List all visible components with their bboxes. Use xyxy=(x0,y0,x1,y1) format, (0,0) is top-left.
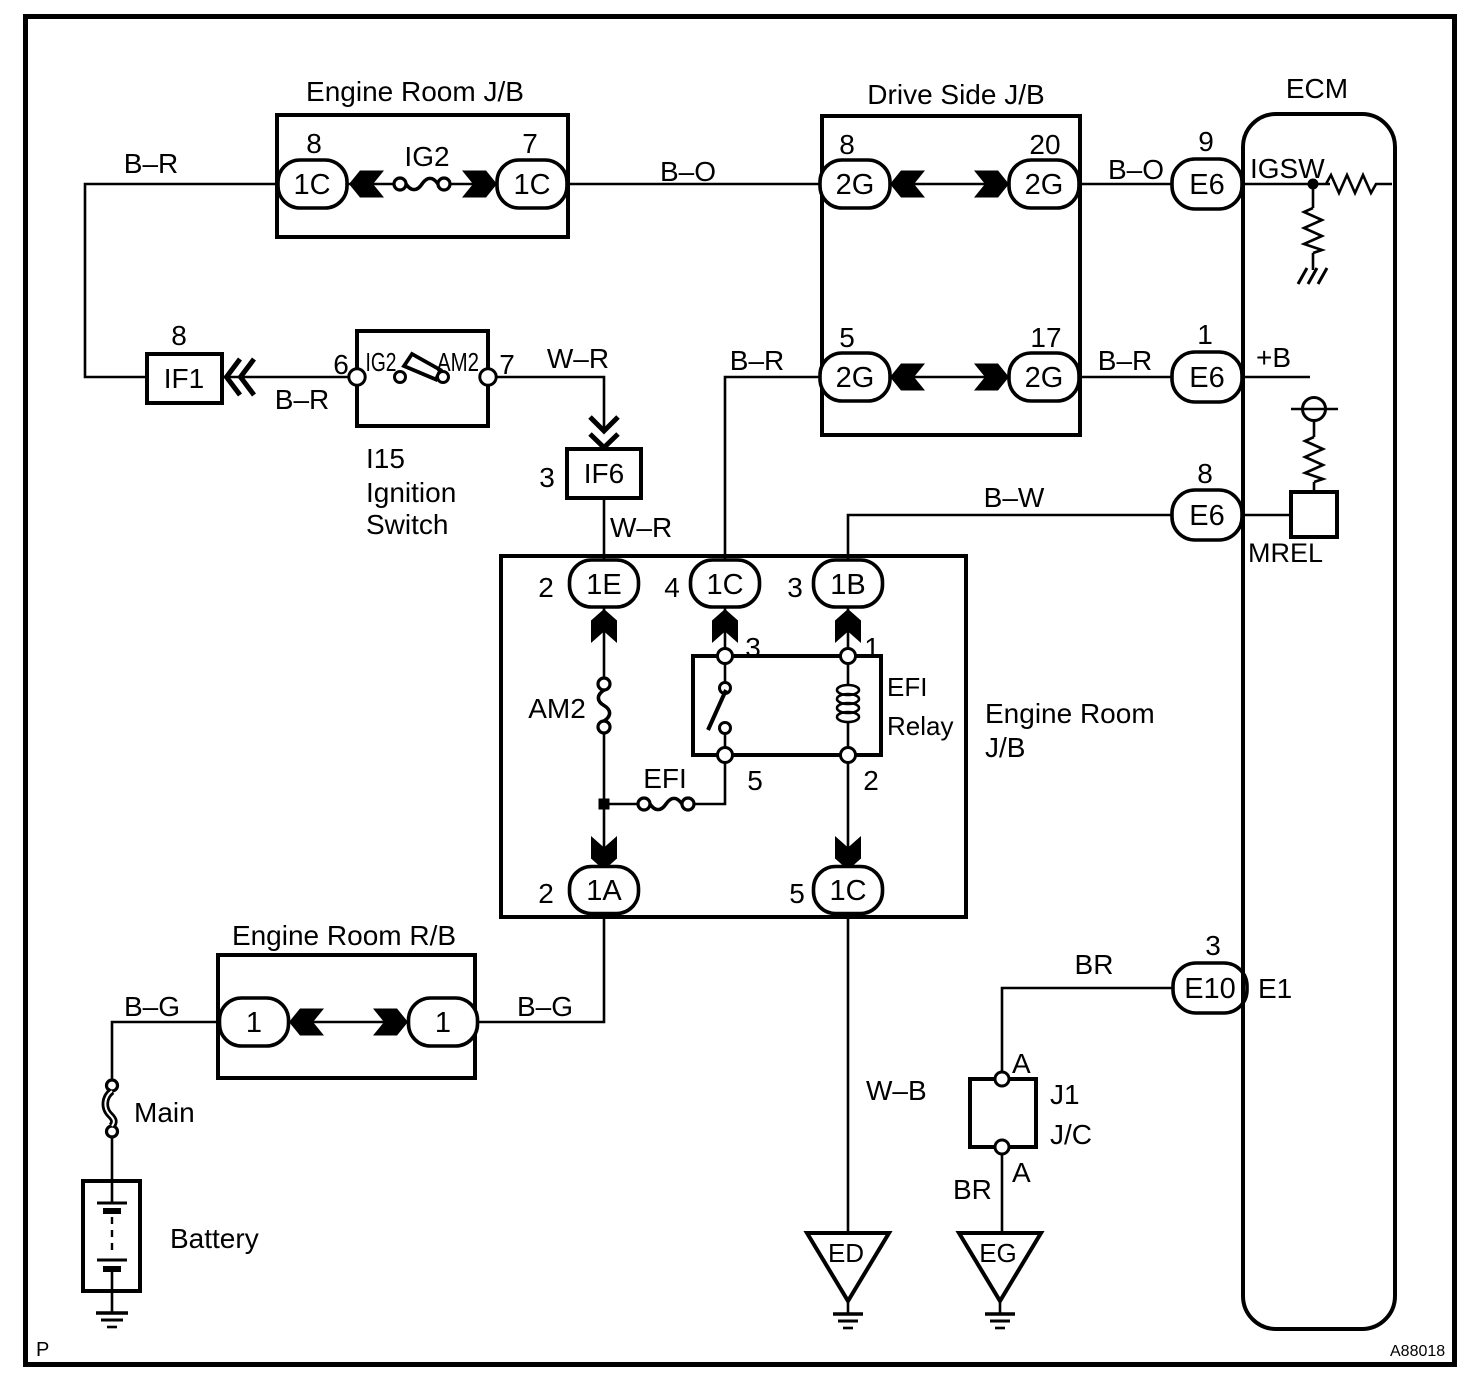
I15 box xyxy=(357,331,488,426)
wire between connectors xyxy=(289,1021,408,1024)
Engine Room J/B box xyxy=(277,115,568,237)
relay contact lower xyxy=(720,723,731,734)
pin A top xyxy=(995,1072,1009,1086)
wire B-R 2G pin17 to E6 pin1 xyxy=(1080,376,1172,379)
wire B-O 1C pin7 to 2G pin8 xyxy=(567,183,820,186)
connector arrow down (1A) xyxy=(591,836,617,870)
svg-text:20: 20 xyxy=(1029,129,1060,160)
svg-text:1C: 1C xyxy=(513,169,550,201)
svg-text:3: 3 xyxy=(787,572,803,603)
battery plate long top xyxy=(97,1202,127,1205)
svg-text:IG2: IG2 xyxy=(366,347,397,377)
ground (EG) xyxy=(999,1301,1002,1313)
connector 1A pin 2 xyxy=(570,867,639,914)
svg-text:E6: E6 xyxy=(1189,500,1224,532)
svg-text:AM2: AM2 xyxy=(528,693,586,724)
svg-text:B–R: B–R xyxy=(1098,345,1152,376)
svg-text:Main: Main xyxy=(134,1097,195,1128)
resistor vertical IGSW xyxy=(1304,208,1322,253)
svg-text:EFI: EFI xyxy=(887,672,927,702)
battery xyxy=(83,1181,259,1291)
svg-text:A88018: A88018 xyxy=(1390,1343,1445,1360)
wire B-R IF1 to ignition switch pin 6 xyxy=(222,376,357,379)
connector arrow up (1C) xyxy=(712,609,738,643)
svg-text:B–R: B–R xyxy=(730,345,784,376)
ground triangle ED xyxy=(807,1233,889,1301)
wire relay pin2 to 1C bottom xyxy=(847,762,850,867)
Engine Room R/B box xyxy=(218,955,475,1078)
svg-text:A: A xyxy=(1012,1157,1031,1188)
node IGSW xyxy=(1308,179,1319,190)
svg-text:B–R: B–R xyxy=(124,148,178,179)
svg-text:1: 1 xyxy=(864,632,880,663)
svg-text:1C: 1C xyxy=(293,169,330,201)
wire BR J1 to EG xyxy=(1001,1154,1004,1233)
fusible link Main xyxy=(107,1080,118,1091)
fuse AM2 xyxy=(598,678,610,690)
junction block: Drive Side J/B xyxy=(820,79,1080,435)
wire W-R pin7 to IF6 xyxy=(495,377,604,431)
wire 1E to AM2 fuse xyxy=(603,607,606,678)
connector arrow up (1E) xyxy=(591,609,617,643)
svg-text:8: 8 xyxy=(1197,458,1213,489)
connector arrow left row1 xyxy=(890,171,925,198)
wire relay pin5 to EFI fuse xyxy=(694,762,725,804)
wire 1C to relay pin 3 xyxy=(724,607,727,650)
battery plate long bottom xyxy=(97,1259,127,1262)
wire resistor to MREL box xyxy=(1313,482,1316,492)
resistor horizontal IGSW xyxy=(1326,175,1392,193)
svg-text:ECM: ECM xyxy=(1286,73,1348,104)
Drive Side J/B box xyxy=(822,116,1080,435)
wire W-R IF6 to 1E xyxy=(603,498,606,561)
svg-text:8: 8 xyxy=(306,128,322,159)
relay box EFI xyxy=(693,656,881,755)
wire between 2G row2 xyxy=(890,376,1009,379)
svg-text:W–R: W–R xyxy=(547,343,609,374)
junction block: Engine Room J/B (center) xyxy=(501,556,1155,917)
svg-text:E10: E10 xyxy=(1184,973,1236,1005)
fusible link IF6 xyxy=(567,449,641,498)
switch arm xyxy=(404,354,441,380)
svg-text:IG2: IG2 xyxy=(404,141,449,172)
wire B-G R/B to Main link xyxy=(112,1022,219,1080)
svg-text:4: 4 xyxy=(664,572,680,603)
pin 7 xyxy=(480,369,496,385)
wire B-W 1B to ECM E6 pin 8 xyxy=(848,515,1172,560)
relay pin 3 xyxy=(718,649,733,664)
ground (ECM internal) xyxy=(1298,268,1327,284)
svg-text:ED: ED xyxy=(828,1238,864,1268)
contact AM2 xyxy=(438,372,449,383)
connector chevrons at IF1 xyxy=(227,359,255,395)
wire EFI fuse to junction xyxy=(604,803,638,806)
pin A bottom xyxy=(995,1140,1009,1154)
relay pin 2 xyxy=(841,748,856,763)
connector 1E pin 2 xyxy=(570,560,639,607)
svg-text:Relay: Relay xyxy=(887,711,953,741)
fusible link IF1 xyxy=(147,354,222,403)
wire BR E10 to J1 xyxy=(1002,988,1174,1072)
svg-text:2: 2 xyxy=(538,878,554,909)
connector 1B pin 3 xyxy=(814,560,883,607)
junction connector J1 J/C xyxy=(970,1048,1092,1188)
connector 2G pin 5 xyxy=(820,353,890,401)
ground (ED) xyxy=(847,1301,850,1313)
MREL driver box xyxy=(1291,492,1337,537)
svg-text:Ignition: Ignition xyxy=(366,477,456,508)
svg-text:B–G: B–G xyxy=(517,991,573,1022)
battery plate short thick bottom xyxy=(103,1266,121,1272)
junction node xyxy=(599,799,610,810)
battery plate short thick xyxy=(103,1208,121,1214)
svg-text:2G: 2G xyxy=(1025,362,1064,394)
svg-text:1B: 1B xyxy=(830,569,865,601)
connector arrow right xyxy=(373,1009,408,1036)
svg-text:A: A xyxy=(1012,1048,1031,1079)
svg-text:P: P xyxy=(36,1339,49,1361)
svg-text:1C: 1C xyxy=(829,875,866,907)
wire B-G 1A to Engine Room R/B xyxy=(477,914,604,1022)
svg-text:1: 1 xyxy=(246,1007,262,1039)
ECM module xyxy=(1242,73,1395,1329)
ignition switch I15 xyxy=(333,331,515,540)
connector arrow right xyxy=(462,171,497,198)
svg-text:1A: 1A xyxy=(586,875,622,907)
wire B-R to 2G pin5 and down to 1C pin4 xyxy=(725,377,820,561)
fuse IG2 xyxy=(394,178,406,190)
svg-text:Switch: Switch xyxy=(366,509,448,540)
svg-text:17: 17 xyxy=(1030,322,1061,353)
svg-text:B–W: B–W xyxy=(984,482,1045,513)
svg-text:W–R: W–R xyxy=(610,512,672,543)
svg-text:8: 8 xyxy=(839,129,855,160)
svg-text:1: 1 xyxy=(435,1007,451,1039)
svg-text:E6: E6 xyxy=(1189,362,1224,394)
svg-text:7: 7 xyxy=(522,128,538,159)
relay pin 5 xyxy=(718,748,733,763)
svg-text:EFI: EFI xyxy=(643,763,687,794)
svg-text:2G: 2G xyxy=(1025,169,1064,201)
svg-text:MREL: MREL xyxy=(1248,538,1323,568)
connector 1C pin 5 xyxy=(814,867,883,914)
svg-text:B–O: B–O xyxy=(660,156,716,187)
svg-text:Engine Room R/B: Engine Room R/B xyxy=(232,920,456,951)
svg-text:3: 3 xyxy=(745,632,761,663)
connector 2G pin 20 xyxy=(1009,160,1079,208)
svg-text:Battery: Battery xyxy=(170,1223,259,1254)
contact IG2 xyxy=(395,372,406,383)
connector arrow left row2 xyxy=(890,364,925,391)
svg-text:IF1: IF1 xyxy=(164,363,204,394)
svg-text:8: 8 xyxy=(171,320,187,351)
wire B-O 2G pin20 to E6 pin9 xyxy=(1080,183,1172,186)
wire 1B to relay pin 1 xyxy=(847,607,850,650)
wire node to resistor xyxy=(1312,184,1315,208)
svg-text:B–O: B–O xyxy=(1108,154,1164,185)
wire resistor to ground xyxy=(1312,253,1315,270)
Engine Room J/B box xyxy=(501,556,966,917)
svg-text:1: 1 xyxy=(1197,319,1213,350)
svg-text:5: 5 xyxy=(747,765,763,796)
svg-text:Engine Room J/B: Engine Room J/B xyxy=(306,76,524,107)
svg-text:IF6: IF6 xyxy=(584,458,624,489)
svg-text:B–R: B–R xyxy=(275,384,329,415)
svg-text:2G: 2G xyxy=(836,169,875,201)
connector E6 pin 9 xyxy=(1172,159,1242,209)
svg-text:AM2: AM2 xyxy=(437,347,479,377)
relay coil xyxy=(847,663,850,685)
connector 2G pin 17 xyxy=(1009,353,1079,401)
svg-text:2G: 2G xyxy=(836,362,875,394)
battery box xyxy=(83,1181,140,1291)
svg-text:1E: 1E xyxy=(586,569,621,601)
relay block: Engine Room R/B xyxy=(218,920,478,1078)
svg-text:7: 7 xyxy=(499,349,515,380)
node circle MREL driver xyxy=(1291,408,1338,411)
connector E6 pin 8 xyxy=(1172,490,1242,540)
svg-text:BR: BR xyxy=(953,1174,992,1205)
svg-text:Engine Room: Engine Room xyxy=(985,698,1155,729)
ECM box xyxy=(1243,114,1395,1329)
connector 1 (right) xyxy=(409,998,478,1046)
ground (battery) xyxy=(96,1311,128,1315)
svg-text:E6: E6 xyxy=(1189,169,1224,201)
svg-text:E1: E1 xyxy=(1258,973,1292,1004)
J1 box xyxy=(970,1079,1036,1147)
wire fuse to arrows xyxy=(347,183,394,186)
svg-text:B–G: B–G xyxy=(124,991,180,1022)
svg-text:2: 2 xyxy=(538,572,554,603)
svg-text:W–B: W–B xyxy=(866,1075,927,1106)
connector arrow right row2 xyxy=(974,364,1009,391)
wire B-R from 1C pin8 to IF1 xyxy=(85,184,278,377)
ground triangle EG xyxy=(959,1233,1041,1301)
wire IGSW xyxy=(1242,183,1330,186)
wire circle to resistor xyxy=(1313,421,1316,437)
wire +B xyxy=(1242,376,1310,379)
svg-text:Drive Side J/B: Drive Side J/B xyxy=(867,79,1044,110)
svg-text:6: 6 xyxy=(333,349,349,380)
svg-text:3: 3 xyxy=(1205,930,1221,961)
connector 1 (left) xyxy=(220,998,289,1046)
wire AM2 fuse to 1A xyxy=(603,733,606,867)
relay contact upper xyxy=(724,663,727,683)
svg-text:3: 3 xyxy=(539,462,555,493)
connector E10 pin 3 xyxy=(1173,963,1247,1013)
svg-text:1C: 1C xyxy=(706,569,743,601)
svg-text:J/C: J/C xyxy=(1050,1119,1092,1150)
svg-text:I15: I15 xyxy=(366,443,405,474)
connector chevrons above IF6 xyxy=(590,417,618,448)
wire W-B 1C to ED xyxy=(847,914,850,1233)
wire E6 pin8 to MREL box xyxy=(1242,514,1291,517)
svg-text:BR: BR xyxy=(1075,949,1114,980)
connector arrow left xyxy=(349,171,384,198)
wire Main to Battery xyxy=(111,1137,114,1202)
connector arrow down (1C) xyxy=(835,836,861,870)
connector 1C pin 4 xyxy=(691,560,760,607)
relay pin 1 xyxy=(841,649,856,664)
svg-text:EG: EG xyxy=(979,1238,1017,1268)
svg-text:5: 5 xyxy=(789,878,805,909)
connector arrow up (1B) xyxy=(835,609,861,643)
junction block: Engine Room J/B (top) xyxy=(277,76,568,237)
connector arrow left xyxy=(289,1009,324,1036)
wire battery to ground xyxy=(111,1272,114,1313)
connector arrow right row1 xyxy=(974,171,1009,198)
connector 1C pin 8 xyxy=(278,160,347,208)
wire between 2G row1 xyxy=(890,183,1009,186)
connector 2G pin 8 xyxy=(820,160,890,208)
resistor vertical MREL xyxy=(1305,437,1323,482)
connector E6 pin 1 xyxy=(1172,352,1242,402)
connector 1C pin 7 xyxy=(497,160,567,208)
svg-text:5: 5 xyxy=(839,322,855,353)
fuse EFI xyxy=(682,798,694,810)
relay switch arm xyxy=(708,690,726,730)
svg-text:9: 9 xyxy=(1198,126,1214,157)
battery dashed line xyxy=(111,1217,113,1256)
svg-text:J1: J1 xyxy=(1050,1079,1080,1110)
svg-text:2: 2 xyxy=(863,765,879,796)
pin 6 xyxy=(349,369,365,385)
svg-text:J/B: J/B xyxy=(985,732,1025,763)
svg-text:+B: +B xyxy=(1256,342,1291,373)
